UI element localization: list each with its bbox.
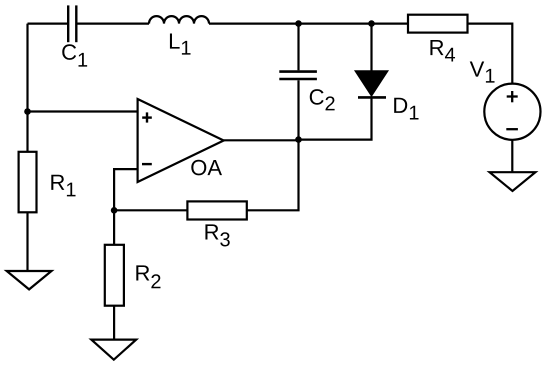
resistor R1 [19, 152, 37, 213]
wire left vertical rail [26, 24, 28, 152]
diode D1 [356, 71, 387, 97]
wire D1 branch upper [370, 24, 372, 72]
op-amp OA [138, 99, 224, 182]
node B junction top wire / C2 [295, 20, 302, 27]
svg-text:D1: D1 [392, 93, 419, 125]
node E junction R2 / R3 / inverting input [111, 207, 118, 214]
wire non-inverting input [28, 110, 138, 112]
wire C2 branch upper [297, 24, 299, 71]
capacitor C2 [279, 72, 317, 79]
ground under R2 [91, 340, 136, 360]
resistor R4 [408, 15, 468, 33]
ground under V1 [490, 172, 536, 191]
wire R4 to V1 top corner [468, 24, 513, 84]
wire D1 bottom to output node [299, 97, 372, 139]
resistor R2 [105, 245, 124, 306]
inductor L1 [149, 16, 209, 24]
svg-text:R4: R4 [429, 35, 456, 66]
node A junction C1/R1/op-amp+ [24, 108, 31, 115]
wire R3 to inverting node [114, 209, 187, 211]
wire R2 to ground [113, 306, 115, 340]
svg-text:R2: R2 [134, 261, 161, 294]
wire op-amp output [224, 139, 299, 141]
wire inverting input [114, 169, 138, 210]
wire L1 to R4 [209, 23, 408, 25]
wire node to R2 [113, 210, 115, 245]
node D junction output / C2 / D1 / R3 [295, 136, 302, 143]
svg-text:C1: C1 [61, 40, 88, 72]
wire top-left horizontal to C1 [28, 23, 68, 25]
wire V1 to ground [511, 140, 513, 172]
svg-text:C2: C2 [309, 85, 336, 116]
svg-text:V1: V1 [470, 57, 496, 88]
svg-text:R3: R3 [204, 220, 231, 252]
svg-text:R1: R1 [49, 170, 76, 202]
node C junction top wire / D1 [368, 20, 375, 27]
ground under R1 [7, 271, 52, 289]
wire C1 to L1 [78, 23, 150, 25]
wire feedback vertical from output node [247, 140, 299, 211]
resistor R3 [187, 201, 246, 219]
capacitor C1 [68, 5, 76, 42]
svg-text:L1: L1 [168, 29, 191, 60]
wire C2 branch lower [297, 80, 299, 139]
svg-text:OA: OA [190, 155, 222, 180]
voltage source V1 [484, 84, 540, 140]
wire R1 to ground [26, 212, 28, 271]
